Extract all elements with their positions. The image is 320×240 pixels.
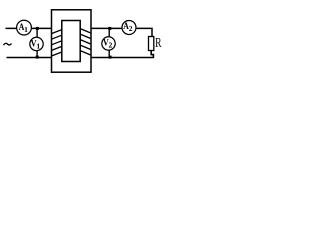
junction node top-left bbox=[36, 27, 39, 30]
wire top secondary bbox=[91, 28, 152, 37]
wire voltmeter V1 branch bbox=[36, 28, 38, 57]
junction node top-right bbox=[108, 27, 111, 30]
svg-text:1: 1 bbox=[36, 41, 40, 50]
wire voltmeter V2 branch bbox=[108, 28, 110, 57]
svg-text:1: 1 bbox=[24, 25, 28, 34]
voltmeter V1 bbox=[30, 37, 43, 50]
ammeter A1 bbox=[17, 20, 32, 35]
wire top primary bbox=[6, 27, 52, 29]
transformer core inner bbox=[62, 21, 80, 62]
svg-text:2: 2 bbox=[109, 41, 113, 50]
resistor R box bbox=[149, 37, 154, 51]
wire bottom secondary bbox=[91, 50, 153, 58]
voltmeter V2 bbox=[102, 37, 115, 50]
secondary winding turns bbox=[80, 29, 91, 55]
AC source symbol ~ bbox=[4, 43, 12, 45]
wire bottom primary bbox=[7, 57, 52, 59]
transformer core outer bbox=[52, 10, 92, 72]
primary winding turns bbox=[52, 30, 62, 56]
junction node bottom-right bbox=[109, 56, 112, 59]
ammeter A2 bbox=[122, 21, 136, 35]
svg-text:2: 2 bbox=[129, 24, 133, 33]
svg-text:R: R bbox=[155, 35, 161, 50]
junction node bottom-left bbox=[36, 56, 39, 59]
